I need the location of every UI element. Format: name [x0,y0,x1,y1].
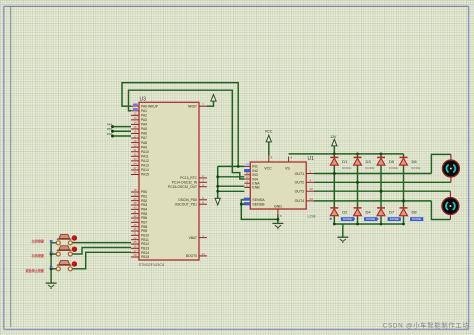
U3 pin PA14 (pin 37) [131,166,149,172]
svg-text:PA5: PA5 [107,127,113,131]
U3 pin PB5 (pin 41) [131,210,147,216]
wire stub at PA6 [113,135,132,137]
wire bus to ENB [218,190,245,192]
U3 pin PB8 (pin 45) [131,223,147,229]
svg-text:D3: D3 [366,159,372,164]
U1 pin ENB (pin 11) [244,184,260,190]
U3 pin PA15 (pin 38) [131,171,149,177]
power terminal VCC [266,135,271,142]
U3 pin PB3 (pin 39) [131,201,147,207]
diode D8 [400,208,408,216]
svg-text:33: 33 [133,157,137,161]
selected value DIODE of D2 [341,217,354,221]
U1 pin OUT1 (pin 2) [295,170,314,176]
svg-text:30: 30 [133,143,137,147]
svg-text:U1: U1 [308,156,315,162]
svg-text:14: 14 [133,121,137,125]
wire PA0 to IN1 outer loop [122,83,238,167]
svg-text:STM32F103C6: STM32F103C6 [139,263,165,267]
wire button2 left link [51,253,56,255]
junction button2 bus [50,253,53,256]
diode D6 [400,157,408,165]
sheet frame left blue border [3,6,5,329]
selected value DIODE of D4 [364,217,377,221]
U3 pin PB10 (pin 21) [131,232,149,238]
selection marker at button2 junction [50,251,53,254]
svg-text:左转按键: 左转按键 [31,239,45,244]
selection marker at button3 junction [50,266,53,269]
U1 pin VS (pin 4) [285,156,292,171]
U3 pin PC14-OSC32_IN (pin 3) [172,179,207,185]
svg-text:DIODE: DIODE [343,217,352,221]
wire bus to ENA [218,185,245,187]
svg-text:12V: 12V [330,135,337,139]
wire OUT1 up-and-over to motor 1 top [431,154,451,173]
U3 pin PB14 (pin 27) [131,249,149,255]
svg-text:U3: U3 [140,97,147,103]
U3 pin PA2 (pin 12) [131,112,147,118]
wire diode column 2 [357,154,359,157]
diode D4 [354,208,362,216]
svg-text:右转按键: 右转按键 [31,253,45,258]
svg-text:DIODE: DIODE [412,217,421,221]
U1 pin OUT2 (pin 3) [295,178,314,184]
wire IN1 horizontal from bus to L298 [218,165,245,167]
junction bottom rail [333,223,336,226]
U3 pin PB11 (pin 22) [131,236,149,242]
svg-text:VBAT: VBAT [189,236,197,240]
U1 pin OUT3 (pin 13) [295,187,314,193]
U1 pin ENA (pin 6) [244,179,260,185]
ground symbol under buttons [46,283,57,288]
U3 pin PB7 (pin 43) [131,219,147,225]
node PA4 [111,125,114,128]
svg-text:16: 16 [133,130,137,134]
svg-text:VS: VS [285,166,290,170]
svg-text:VCC: VCC [264,166,272,170]
junction bottom rail [356,223,359,226]
sheet left gray edge line [10,6,12,327]
sheet frame right blue border [468,6,470,329]
wire OUT1 row [314,173,431,175]
junction top rail [333,153,336,156]
wire 12V terminal drop [333,146,335,154]
wire 12V top rail [289,153,404,155]
svg-text:OUT4: OUT4 [295,199,305,203]
svg-text:L298: L298 [308,215,316,219]
U3 pin PB0 (pin 18) [131,188,147,194]
svg-text:PA7: PA7 [141,136,147,140]
svg-text:紧急停止按键: 紧急停止按键 [26,268,45,273]
svg-text:CSDN @小车智能制作工坊: CSDN @小车智能制作工坊 [383,321,470,330]
svg-text:PA6: PA6 [107,132,113,136]
svg-text:D1: D1 [342,159,348,164]
svg-text:PC15-OSC32_OUT: PC15-OSC32_OUT [168,185,197,189]
U3 pin PA7 (pin 17) [131,134,147,140]
U3 pin PA6 (pin 16) [131,130,147,136]
wire GND pin down to ground [277,215,279,224]
wire OUT3 row [314,190,450,192]
svg-text:PA2: PA2 [141,113,147,117]
wire SENSB join [241,203,244,205]
svg-text:PB15: PB15 [141,255,149,259]
wire ground drop from bottom rail [342,224,344,237]
junction PA0 loop / IN1 [237,165,240,168]
svg-text:ENB: ENB [252,186,260,190]
wire VCC pin to VCC terminal [268,142,270,156]
diode D7 [377,208,385,216]
U3 pin PB4 (pin 40) [131,206,147,212]
junction button3 bus [50,267,53,270]
diode D2 [330,208,338,216]
svg-text:28: 28 [133,253,137,257]
U3 pin OSCIN_PD0 (pin 5) [178,196,207,202]
svg-text:SENSA: SENSA [252,198,265,202]
junction top rail [356,153,359,156]
wire button2 to U3 PB pin [72,248,131,255]
svg-text:13: 13 [310,187,314,191]
junction GND/SENS run [277,218,280,221]
power terminal at NRST [211,95,216,102]
junction top rail [380,153,383,156]
svg-text:32: 32 [133,152,137,156]
U3 pin PA12 (pin 33) [131,157,149,163]
wire OUT4 under-and-up to motor 2 bottom [431,201,450,220]
svg-text:PA3: PA3 [141,118,147,122]
svg-text:D2: D2 [342,210,348,215]
svg-text:NRST: NRST [188,104,197,108]
selection marker at bus top corner [50,240,53,243]
power terminal 12V [332,139,337,146]
motor driver U1 body [250,162,306,209]
sheet frame bottom blue border [4,328,469,330]
window top light edge line [0,4,474,6]
svg-text:PA6: PA6 [141,132,147,136]
U3 pin OSCOUT_PD1 (pin 6) [175,200,207,206]
svg-text:OUT2: OUT2 [295,181,305,185]
wire stub at PA5 [113,130,132,132]
svg-text:PA12: PA12 [141,159,149,163]
U3 pin PA9 (pin 30) [131,143,147,149]
svg-text:OUT3: OUT3 [295,189,305,193]
selected value DIODE of D7 [388,217,401,221]
svg-text:PA13: PA13 [141,164,149,168]
U1 pin IN4 (pin 12) [244,175,258,181]
ground symbol under diode rail [337,237,348,242]
U3 pin PA1 (pin 11) [131,108,147,113]
U1 pin OUT4 (pin 14) [295,197,314,203]
U1 pin SENSB (pin 15, selected) [244,202,265,206]
svg-text:PA11: PA11 [141,154,149,158]
svg-text:OUT1: OUT1 [295,172,305,176]
wire NRST to power terminal [207,101,214,106]
svg-text:44: 44 [201,252,205,256]
svg-text:GND: GND [274,204,282,208]
svg-text:15: 15 [133,125,137,129]
wire bottom ground rail [334,223,403,225]
svg-text:PA1: PA1 [141,109,147,113]
node PA6 [111,135,114,138]
U3 pin PA3 (pin 13) [131,116,147,122]
ground symbol under U1 [272,223,283,228]
svg-text:D5: D5 [389,159,395,164]
junction bottom rail [402,223,405,226]
svg-text:D7: D7 [389,210,395,215]
motor 1 bottom pin stub [450,177,452,183]
selected value DIODE of D8 [410,217,423,221]
wire button3 left link [51,268,56,270]
U3 pin PC15-OSC32_OUT (pin 4) [168,183,207,189]
motor M2 [442,198,459,215]
U3 pin PA0-WKUP (pin 10) [131,104,159,109]
push button button 3 [56,261,77,271]
svg-text:SENSB: SENSB [252,203,265,207]
svg-text:PC14-OSC32_IN: PC14-OSC32_IN [172,180,198,184]
U3 pin PA5 (pin 15) [131,125,147,131]
U1 pin VCC (pin 9) [264,156,272,171]
U3 pin VBAT (pin 1) [189,234,207,240]
wire OUT4 row [314,200,431,202]
U3 pin NRST (pin 7) [188,102,207,108]
svg-text:14: 14 [310,197,314,201]
U3 pin PA13 (pin 34) [131,162,149,168]
svg-text:PA5: PA5 [141,127,147,131]
svg-text:12: 12 [133,112,137,116]
wire stub at PA4 [113,126,132,128]
node PA5 [111,130,114,133]
U3 pin BOOT0 (pin 44) [186,252,207,258]
wire diode column 4 [403,154,405,157]
diode D3 [354,157,362,165]
svg-text:BOOT0: BOOT0 [186,254,197,258]
svg-text:34: 34 [133,162,137,166]
svg-text:OSCIN_PD0: OSCIN_PD0 [178,198,197,202]
motor 2 bottom pin stub [449,214,451,219]
U3 pin PA10 (pin 31) [131,148,149,154]
U3 pin PB9 (pin 46) [131,227,147,233]
wire diode column 3 [380,154,382,157]
svg-text:D8: D8 [412,210,418,215]
svg-text:DIODE: DIODE [411,166,420,170]
wire bus to IN3 [218,176,245,178]
U3 pin PA4 (pin 14) [131,121,147,127]
U1 pin SENSA (pin 1, selected) [244,198,265,203]
svg-text:D4: D4 [366,210,372,215]
push button button 2 [56,246,77,256]
svg-text:PA10: PA10 [141,150,149,154]
junction bottom rail [380,223,383,226]
svg-text:DIODE: DIODE [342,166,351,170]
U3 pin PB13 (pin 26) [131,245,149,251]
svg-text:PA0-WKUP: PA0-WKUP [141,104,159,108]
junction bus IN3 [216,175,219,178]
ground-pointing terminal on bus [215,198,220,205]
U1 pin IN2 (pin 7) [244,169,258,173]
wire SENSA to ground run [241,200,278,220]
wire diode column 1 [333,154,335,157]
svg-text:VCC: VCC [265,130,273,134]
svg-text:17: 17 [133,134,137,138]
push button button 1 [56,235,77,245]
junction SENSA/SENSB [240,203,243,206]
junction column 1 with OUT1 [333,172,336,175]
U3 pin PB6 (pin 42) [131,214,147,220]
U3 pin PB2 (pin 20) [131,197,147,203]
svg-text:PC13_RTC: PC13_RTC [180,176,197,180]
U1 pin IN3 (pin 10) [244,171,258,177]
svg-text:OSCOUT_PD1: OSCOUT_PD1 [175,202,198,206]
svg-text:D6: D6 [412,159,418,164]
svg-text:13: 13 [133,116,137,120]
U3 pin PB15 (pin 28) [131,253,149,259]
U3 pin PB1 (pin 19) [131,193,147,199]
svg-text:DIODE: DIODE [389,166,398,170]
svg-text:DIODE: DIODE [365,166,374,170]
wire PA1 to IN4 inner loop [129,90,245,179]
svg-text:DIODE: DIODE [390,217,399,221]
svg-text:DIODE: DIODE [366,217,375,221]
U1 pin IN1 (pin 5) [244,163,258,169]
vertical bus wire to ground terminal [217,166,219,198]
junction column 2 with OUT2 [356,181,359,184]
svg-text:PA8: PA8 [141,141,147,145]
diode D5 [377,157,385,165]
motor 2 top pin stub [449,191,451,198]
junction column 3 with OUT3 [380,190,383,193]
svg-text:11: 11 [246,184,249,188]
diode D1 [330,157,338,165]
U3 pin PC13_RTC (pin 2) [180,174,207,180]
svg-text:29: 29 [133,139,137,143]
U1 pin GND (pin 8) [274,204,282,218]
svg-text:37: 37 [133,166,137,170]
U3 pin PB12 (pin 25) [131,240,149,246]
svg-text:PA14: PA14 [141,168,149,172]
svg-text:PA9: PA9 [141,145,147,149]
svg-text:PA4: PA4 [141,123,147,127]
motor M1 [442,160,459,177]
svg-text:PA4: PA4 [107,122,113,126]
wire button1 to U3 PB pin [72,242,131,244]
svg-text:31: 31 [133,148,137,152]
wire button left bus to ground [51,243,56,283]
motor 1 top pin stub [450,154,452,160]
sheet top gray edge line [4,5,469,7]
wire button3 to U3 PB pin [72,252,131,268]
junction column 4 with OUT4 [402,199,405,202]
microcontroller U3 body [139,102,199,260]
svg-text:38: 38 [133,171,137,175]
U3 pin PA8 (pin 29) [131,139,147,145]
junction bus ENB [216,190,219,193]
junction bus ENA [216,185,219,188]
U3 pin PA11 (pin 32) [131,152,149,158]
wire OUT2 row [314,181,451,183]
svg-text:PA15: PA15 [141,173,149,177]
